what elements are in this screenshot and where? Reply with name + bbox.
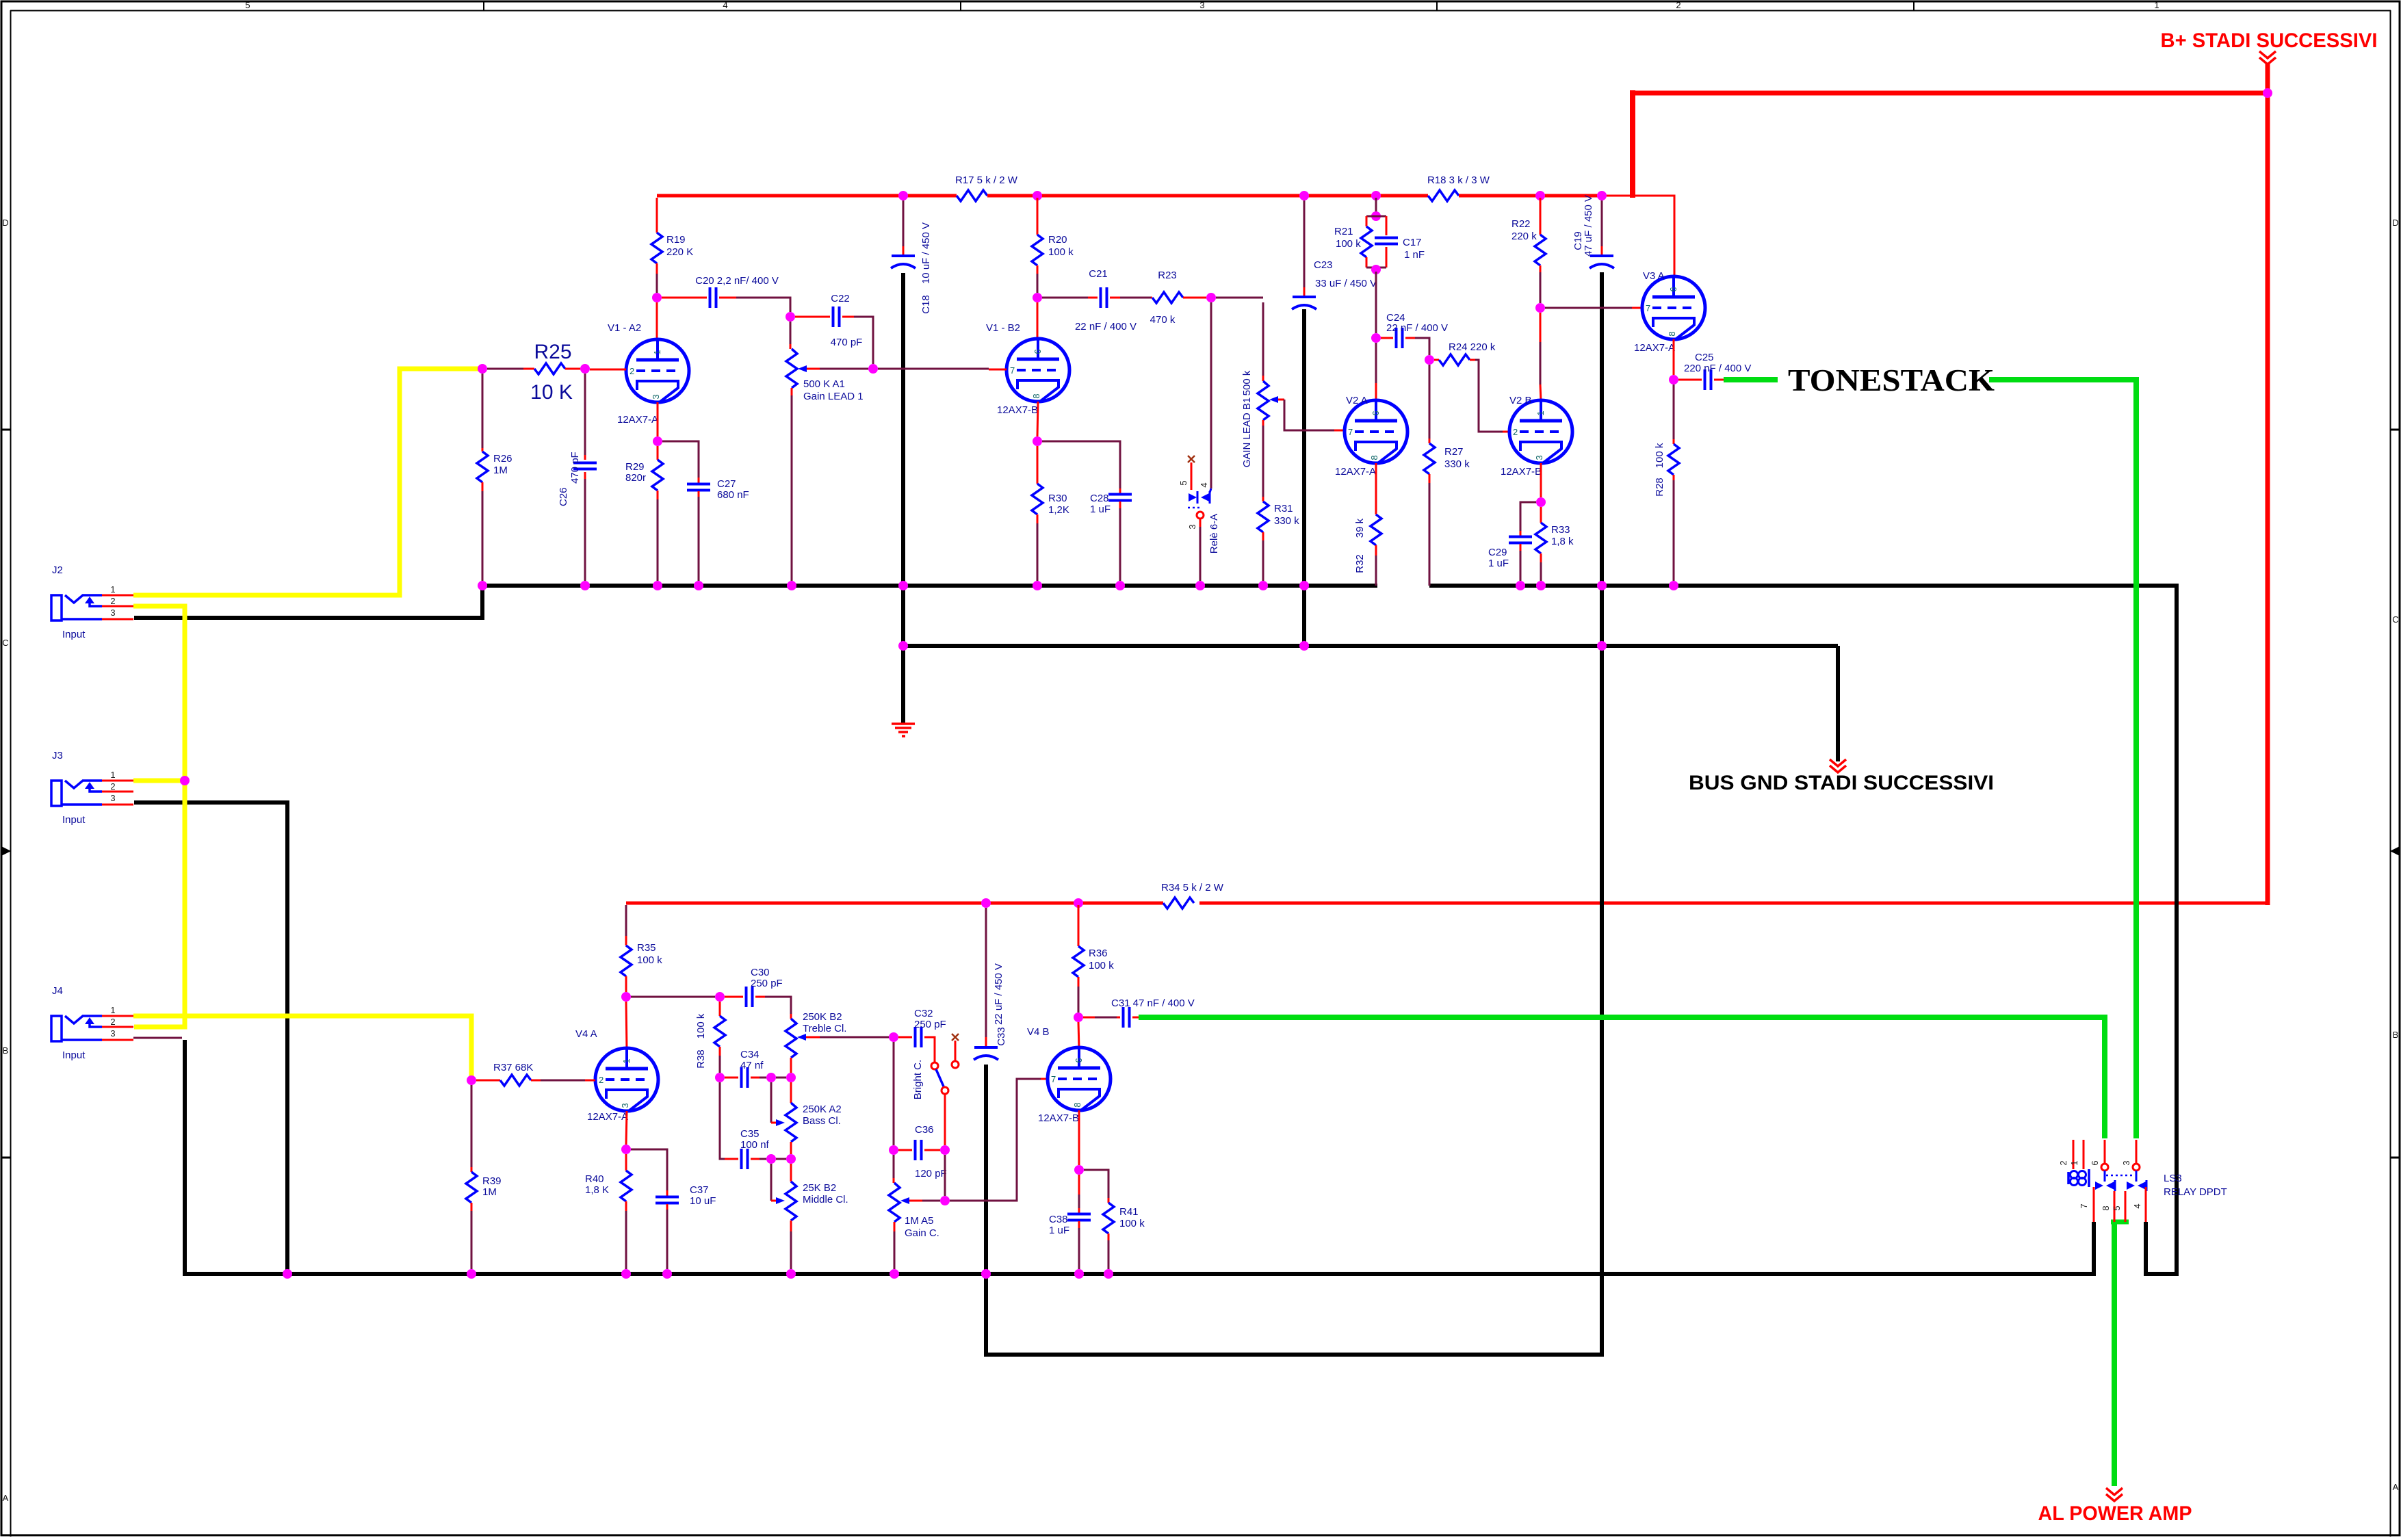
junction bus1 x=1906	[1299, 581, 1309, 590]
junction R25 right	[580, 364, 590, 374]
svg-text:5: 5	[2112, 1205, 2122, 1210]
junction C33 rail	[981, 898, 991, 908]
svg-text:6: 6	[1371, 410, 1381, 415]
svg-text:R34 5 k / 2 W: R34 5 k / 2 W	[1161, 882, 1224, 893]
junction bus3 x=1156	[786, 1269, 796, 1279]
junction R23 output node	[1206, 293, 1216, 302]
svg-text:R40: R40	[585, 1173, 604, 1185]
svg-text:BUS GND STADI SUCCESSIVI: BUS GND STADI SUCCESSIVI	[1689, 772, 1994, 794]
junction bus2 x=2341	[1597, 641, 1607, 651]
svg-text:1: 1	[2154, 0, 2159, 10]
svg-text:47 uF / 450 V: 47 uF / 450 V	[1583, 195, 1594, 257]
svg-text:2: 2	[110, 596, 115, 606]
junction C20/pot A1 node	[786, 312, 795, 322]
svg-text:1,8 K: 1,8 K	[585, 1184, 609, 1196]
svg-text:250 pF: 250 pF	[914, 1019, 946, 1030]
junction V4A plate node	[621, 992, 631, 1002]
capacitor C25 220nF output	[1678, 352, 1751, 390]
svg-text:V2 B: V2 B	[1509, 395, 1532, 406]
capacitor C36 120pF	[898, 1124, 947, 1179]
junction bus1 x=961	[653, 581, 662, 590]
wire rail after R17	[987, 194, 1428, 198]
svg-text:470 pF: 470 pF	[831, 337, 863, 348]
resistor R24 220k	[1434, 341, 1509, 432]
svg-text:22 nF / 400 V: 22 nF / 400 V	[1075, 321, 1137, 332]
B+ arrow head	[2259, 51, 2276, 58]
svg-text:Middle Cl.: Middle Cl.	[803, 1194, 848, 1205]
junction C18 rail	[898, 191, 908, 200]
svg-text:3: 3	[620, 1103, 630, 1108]
svg-text:6: 6	[2090, 1160, 2100, 1165]
svg-text:R32: R32	[1354, 554, 1366, 573]
svg-text:J4: J4	[52, 985, 63, 997]
svg-text:V3 A: V3 A	[1643, 270, 1665, 282]
wire rail corner to R35	[625, 905, 627, 936]
junction bus1 x=2341	[1597, 581, 1607, 590]
junction C23 rail	[1299, 191, 1309, 200]
cathode network V1-B2: junction	[1037, 402, 1038, 436]
svg-text:D: D	[2, 218, 8, 228]
svg-text:R30: R30	[1048, 493, 1067, 504]
wire V1-B2 grid	[878, 368, 989, 370]
junction bus1 x=1516	[1033, 581, 1042, 590]
wire plate to tube	[626, 1002, 627, 1049]
wire top B+ horizontal	[1630, 91, 2268, 96]
svg-text:Bass Cl.: Bass Cl.	[803, 1115, 841, 1127]
capacitor C28 1uF	[1042, 441, 1132, 581]
resistor R30 1,2K	[1032, 446, 1069, 581]
resistor R25 10K grid stopper	[487, 341, 580, 404]
capacitor C20 2,2nF coupling	[662, 275, 790, 312]
svg-text:100 k: 100 k	[1336, 238, 1361, 250]
svg-text:10 uF / 450 V: 10 uF / 450 V	[920, 222, 932, 284]
svg-text:2: 2	[110, 1017, 115, 1027]
svg-text:R38: R38	[695, 1049, 707, 1069]
svg-text:6: 6	[1074, 1058, 1084, 1062]
svg-text:C29: C29	[1488, 547, 1507, 558]
tube V3A 12AX7-A	[1634, 270, 1705, 354]
svg-text:330 k: 330 k	[1274, 515, 1299, 527]
svg-text:C18: C18	[920, 295, 932, 314]
svg-text:2: 2	[1676, 0, 1680, 10]
svg-text:C34: C34	[740, 1049, 760, 1060]
svg-text:Relè 6-A: Relè 6-A	[1208, 514, 1220, 553]
svg-text:8: 8	[1369, 455, 1379, 460]
wire C36 right down to wiper node	[944, 1155, 946, 1196]
capacitor C27 680nF	[662, 441, 749, 581]
svg-text:C22: C22	[831, 293, 850, 304]
wire rail to V3A plate	[1602, 196, 1674, 276]
svg-text:C28: C28	[1090, 493, 1109, 504]
svg-text:7: 7	[1010, 365, 1015, 376]
resistor R29 820r	[625, 446, 663, 581]
svg-text:220 k: 220 k	[1511, 231, 1537, 242]
svg-text:C30: C30	[751, 967, 770, 978]
svg-text:2: 2	[1513, 427, 1518, 437]
junction bus1 x=2222	[1516, 581, 1525, 590]
svg-text:470 pF: 470 pF	[569, 452, 581, 484]
capacitor C21 22nF	[1042, 268, 1151, 332]
wire ground bus 1 right segment	[1429, 584, 2179, 588]
wire yellow J4 tip to R37	[133, 1016, 471, 1078]
junction R36 rail	[1074, 898, 1083, 908]
junction V2A plate / C24	[1371, 333, 1381, 343]
junction bus3 x=1441	[981, 1269, 991, 1279]
wire ground bus 1 left segment	[482, 584, 1377, 588]
junction bus3 x=689	[467, 1269, 476, 1279]
svg-text:12AX7-B: 12AX7-B	[997, 404, 1038, 416]
svg-text:C17: C17	[1403, 237, 1422, 248]
wire green to AL POWER AMP	[2112, 1220, 2117, 1486]
svg-text:TONESTACK: TONESTACK	[1788, 363, 1995, 397]
tube V4B 12AX7-B	[1027, 1026, 1111, 1124]
svg-text:R41: R41	[1119, 1206, 1139, 1218]
junction C34 row	[715, 1073, 725, 1082]
junction bus1 x=1157	[787, 581, 796, 590]
resistor R17 5k/2W	[955, 174, 1018, 201]
wire J3 ground	[134, 802, 287, 1274]
svg-text:500 k: 500 k	[1241, 370, 1253, 395]
svg-text:500 K A1: 500 K A1	[803, 378, 845, 390]
tube V1-A2 12AX7-A	[608, 322, 689, 426]
svg-text:2: 2	[110, 781, 115, 792]
svg-text:V4 A: V4 A	[575, 1028, 597, 1040]
svg-text:Treble Cl.: Treble Cl.	[803, 1023, 846, 1034]
svg-text:Input: Input	[62, 814, 86, 826]
capacitor C37 10uF	[631, 1149, 716, 1269]
svg-text:C32: C32	[914, 1008, 933, 1019]
svg-text:5: 5	[1178, 480, 1189, 485]
svg-text:Input: Input	[62, 1049, 86, 1061]
capacitor C22 470pF	[795, 293, 873, 364]
junction V3A cathode	[1673, 339, 1675, 375]
svg-text:R26: R26	[493, 453, 512, 465]
svg-text:RELAY DPDT: RELAY DPDT	[2164, 1186, 2227, 1198]
svg-text:100 nf: 100 nf	[740, 1139, 770, 1151]
svg-text:7: 7	[2079, 1203, 2089, 1208]
svg-text:C: C	[2, 638, 8, 648]
svg-text:C27: C27	[717, 478, 736, 490]
junction C22/wiper node	[868, 364, 878, 374]
wire B+ right vertical	[2266, 63, 2270, 905]
junction V1-B2 plate node	[1033, 293, 1042, 302]
wire rail to R21/C17 network	[1375, 198, 1377, 213]
resistor R38 100k	[695, 1002, 725, 1073]
junction V2B cathode	[1540, 463, 1542, 497]
svg-text:100 k: 100 k	[1089, 960, 1114, 971]
svg-text:12AX7-B: 12AX7-B	[1501, 466, 1542, 478]
junction V4B cathode	[1078, 1110, 1080, 1165]
tube V2B 12AX7-B	[1501, 395, 1572, 478]
junction J3 tap on yellow	[180, 776, 190, 785]
svg-text:C37: C37	[690, 1184, 709, 1196]
svg-text:8: 8	[1072, 1102, 1082, 1107]
svg-text:V4 B: V4 B	[1027, 1026, 1050, 1038]
capacitor C32 250pF bright	[898, 1008, 946, 1062]
potentiometer 500K A1 Gain LEAD 1	[786, 322, 868, 581]
BUS GND arrow head	[1830, 759, 1846, 766]
svg-text:J2: J2	[52, 564, 63, 576]
potentiometer 250K A2 Bass	[771, 1082, 842, 1154]
svg-text:6: 6	[1033, 349, 1043, 354]
junction V4B plate / C31 node	[1074, 1013, 1083, 1022]
resistor R20 100k	[1032, 198, 1074, 293]
junction bus1 x=855	[580, 581, 590, 590]
junction C35 row	[766, 1154, 776, 1164]
capacitor C30 250pF	[725, 967, 791, 1014]
svg-text:4: 4	[723, 0, 727, 10]
svg-text:820r: 820r	[625, 472, 646, 484]
potentiometer 1M A5 Gain	[889, 1155, 940, 1269]
resistor R22 220k	[1511, 198, 1546, 303]
wire C19 ground drop	[1600, 272, 1604, 646]
junction bus3 x=1577	[1074, 1269, 1084, 1279]
svg-text:R33: R33	[1551, 524, 1570, 536]
wire thick red riser to top B+ line	[1630, 90, 1635, 198]
svg-text:LS3: LS3	[2164, 1173, 2182, 1184]
junction bus1 x=2252	[1536, 581, 1546, 590]
svg-text:100 k: 100 k	[695, 1013, 707, 1039]
svg-text:V1 - A2: V1 - A2	[608, 322, 641, 334]
wire B+ rail top (V1/V2/V3 plate supply)	[657, 194, 957, 198]
svg-text:220 nF / 400 V: 220 nF / 400 V	[1684, 363, 1751, 374]
input jack J3	[51, 750, 133, 826]
svg-text:10 K: 10 K	[530, 381, 573, 404]
junction B+ corner	[2263, 88, 2272, 98]
capacitor C34 47nf	[725, 1049, 786, 1088]
relay LS3 RELAY DPDT	[2058, 1140, 2227, 1222]
svg-text:680 nF: 680 nF	[717, 489, 749, 501]
svg-text:1: 1	[2069, 1160, 2079, 1165]
svg-text:R21: R21	[1334, 226, 1353, 237]
svg-text:B: B	[2393, 1030, 2399, 1040]
svg-text:12AX7-A: 12AX7-A	[587, 1111, 628, 1123]
svg-text:R25: R25	[534, 341, 571, 363]
junction C19 rail	[1597, 191, 1607, 200]
svg-text:C: C	[2392, 614, 2398, 625]
svg-text:GAIN LEAD B1: GAIN LEAD B1	[1241, 397, 1253, 468]
potentiometer 25K B2 Middle	[771, 1164, 848, 1269]
wire rail after R18	[1459, 194, 1602, 198]
junction V2A rail	[1371, 191, 1381, 200]
svg-text:1 uF: 1 uF	[1488, 558, 1509, 569]
resistor R27 330k	[1424, 365, 1470, 586]
svg-text:100 k: 100 k	[1048, 246, 1074, 258]
wire down to relay contact	[1210, 302, 1212, 488]
potentiometer 250K B2 Treble	[786, 1011, 889, 1073]
capacitor C31 47nF output	[1083, 997, 1195, 1028]
svg-text:Input: Input	[62, 629, 86, 640]
junction R37/R39 grid node	[467, 1075, 476, 1085]
svg-text:250K B2: 250K B2	[803, 1011, 842, 1023]
junction bus2 x=1320	[898, 641, 908, 651]
svg-text:1: 1	[621, 1058, 632, 1063]
svg-text:R23: R23	[1158, 270, 1177, 281]
junction V4A cathode	[626, 1111, 627, 1145]
wire plate to tube	[1037, 302, 1039, 340]
resistor R18 3k/3W	[1427, 174, 1490, 201]
svg-text:A: A	[3, 1493, 9, 1503]
junction R21/C17 top	[1371, 211, 1381, 221]
svg-text:8: 8	[2101, 1205, 2111, 1210]
resistor R36 100k	[1073, 905, 1114, 1013]
svg-text:22 nF / 400 V: 22 nF / 400 V	[1386, 322, 1448, 334]
relay contact Rele 6-A	[1178, 456, 1220, 581]
svg-text:1M: 1M	[482, 1186, 497, 1198]
svg-text:12AX7-A: 12AX7-A	[1634, 342, 1675, 354]
wire plate to tube	[1375, 343, 1377, 383]
resistor R28 100k	[1654, 384, 1679, 581]
svg-text:39 k: 39 k	[1354, 518, 1366, 538]
resistor R34 5k/2W	[1161, 882, 1224, 909]
wire C23 ground drop	[1302, 309, 1306, 646]
svg-text:100 k: 100 k	[1119, 1218, 1145, 1229]
resistor R33 1,8k	[1535, 507, 1574, 581]
wire rail after R34	[1199, 902, 2270, 905]
capacitor C33 22uF/450V	[974, 908, 1007, 1060]
resistor R35 100k	[621, 942, 662, 992]
switch Bright C.	[912, 1034, 959, 1145]
resistor R32 39k cathode	[1354, 463, 1381, 586]
svg-text:Bright C.: Bright C.	[912, 1060, 924, 1099]
svg-text:C25: C25	[1695, 352, 1714, 363]
svg-text:4: 4	[1199, 482, 1209, 487]
svg-text:R20: R20	[1048, 234, 1067, 246]
wire plate to tube	[1078, 1022, 1079, 1049]
wire plate to tube	[656, 302, 658, 341]
svg-text:R37 68K: R37 68K	[493, 1062, 533, 1073]
svg-text:1: 1	[110, 584, 115, 595]
svg-text:V2 A: V2 A	[1346, 395, 1368, 406]
wire to C24 node	[1375, 272, 1377, 333]
capacitor C35 100nf	[720, 1082, 786, 1169]
svg-text:3: 3	[651, 394, 661, 399]
svg-text:C31 47 nF / 400 V: C31 47 nF / 400 V	[1111, 997, 1195, 1009]
svg-text:12AX7-A: 12AX7-A	[1335, 466, 1376, 478]
svg-text:12AX7-B: 12AX7-B	[1038, 1112, 1079, 1124]
svg-text:3: 3	[2121, 1160, 2131, 1165]
wire V2B plate to V3A grid	[1545, 307, 1632, 309]
resistor R19 220K	[651, 198, 693, 293]
svg-text:J3: J3	[52, 750, 63, 761]
svg-text:47 nf: 47 nf	[740, 1060, 764, 1071]
svg-text:C38: C38	[1049, 1214, 1068, 1225]
resistor R40 1,8K	[585, 1154, 632, 1269]
junction bus1 x=1320	[898, 581, 908, 590]
svg-text:25K B2: 25K B2	[803, 1182, 836, 1194]
svg-text:R31: R31	[1274, 503, 1293, 514]
svg-text:1 uF: 1 uF	[1090, 504, 1111, 515]
wire plate to tube	[1540, 313, 1542, 342]
svg-text:1: 1	[110, 770, 115, 780]
wire ground bus right vertical to relay	[2146, 586, 2177, 1274]
svg-text:100 k: 100 k	[637, 954, 662, 966]
wire yellow J2 ring to J3/J4	[133, 606, 185, 1027]
svg-text:10 uF: 10 uF	[690, 1195, 716, 1207]
svg-text:R19: R19	[666, 234, 686, 246]
svg-text:330 k: 330 k	[1444, 458, 1470, 470]
capacitor C18 10uF/450V	[891, 200, 932, 314]
junction bus3 x=1307	[890, 1269, 899, 1279]
svg-text:3: 3	[110, 793, 115, 803]
input jack J2	[51, 564, 133, 640]
svg-text:8: 8	[1667, 331, 1677, 336]
wire yellow J3 tip stub	[133, 779, 182, 783]
wire grid stub	[590, 369, 626, 371]
svg-text:R28: R28	[1654, 478, 1665, 497]
tube V4A 12AX7-A	[575, 1028, 658, 1123]
junction R20 rail	[1033, 191, 1042, 200]
junction C24/R24/R27	[1425, 355, 1434, 365]
potentiometer GAIN LEAD B1 500k	[1241, 302, 1345, 497]
svg-text:B+ STADI SUCCESSIVI: B+ STADI SUCCESSIVI	[2161, 29, 2378, 52]
AL POWER AMP arrow head	[2106, 1488, 2123, 1495]
svg-text:120 pF: 120 pF	[915, 1168, 947, 1179]
svg-text:R24 220 k: R24 220 k	[1449, 341, 1496, 353]
junction bus3 x=975	[662, 1269, 672, 1279]
wire to pot B1 top	[1216, 297, 1263, 299]
svg-text:2: 2	[599, 1075, 604, 1085]
junction bus1 x=1637	[1115, 581, 1125, 590]
resistor R21 100k with C17 1nF parallel	[1334, 216, 1425, 267]
svg-text:C26: C26	[558, 487, 569, 506]
wire ground bus 3 (bottom channel)	[185, 1040, 2094, 1274]
svg-text:C21: C21	[1089, 268, 1108, 280]
capacitor C26 470pF	[558, 374, 597, 581]
junction R22 rail	[1535, 191, 1545, 200]
junction bus3 x=915	[621, 1269, 631, 1279]
svg-text:7: 7	[1646, 303, 1650, 313]
svg-text:1: 1	[110, 1005, 115, 1015]
svg-text:3: 3	[1199, 0, 1204, 10]
svg-text:1,8 k: 1,8 k	[1551, 536, 1574, 547]
wire green TONESTACK to relay pin3	[1989, 380, 2136, 1138]
svg-text:100 k: 100 k	[1654, 443, 1665, 468]
svg-text:Gain C.: Gain C.	[905, 1227, 939, 1239]
svg-text:2: 2	[630, 366, 634, 376]
junction bus1 x=1021	[694, 581, 703, 590]
svg-text:R17 5 k / 2 W: R17 5 k / 2 W	[955, 174, 1018, 186]
svg-text:1M A5: 1M A5	[905, 1215, 934, 1227]
wire J2 ground	[134, 586, 482, 618]
wire C18 ground drop	[901, 273, 905, 724]
svg-text:B: B	[3, 1045, 9, 1056]
svg-text:250 pF: 250 pF	[751, 978, 783, 989]
junction bus1 x=705	[478, 581, 487, 590]
svg-text:220 K: 220 K	[666, 246, 693, 258]
svg-text:D: D	[2392, 218, 2398, 228]
junction bus1 x=1754	[1195, 581, 1205, 590]
svg-text:22 uF / 450 V: 22 uF / 450 V	[993, 963, 1004, 1025]
svg-text:1: 1	[1535, 410, 1546, 415]
junction bus3 x=420	[283, 1269, 292, 1279]
junction C36 right	[940, 1145, 950, 1155]
resistor R26 1M	[477, 374, 512, 581]
svg-text:2: 2	[2058, 1160, 2068, 1165]
wire to V4B grid	[950, 1079, 1041, 1201]
svg-text:12AX7-A: 12AX7-A	[617, 414, 658, 426]
resistor R37 68K grid stopper	[476, 1062, 595, 1086]
tube V2A 12AX7-A	[1335, 395, 1407, 478]
resistor R39 1M	[466, 1085, 502, 1269]
junction bus3 x=1620	[1104, 1269, 1113, 1279]
svg-text:1,2K: 1,2K	[1048, 504, 1069, 516]
resistor R23 470k	[1150, 270, 1206, 326]
wire green V3A output to TONESTACK	[1724, 377, 1778, 382]
capacitor C23 33uF/450V	[1292, 200, 1377, 309]
junction R21/C17 bottom	[1371, 265, 1381, 274]
resistor R31 330k	[1258, 497, 1299, 581]
